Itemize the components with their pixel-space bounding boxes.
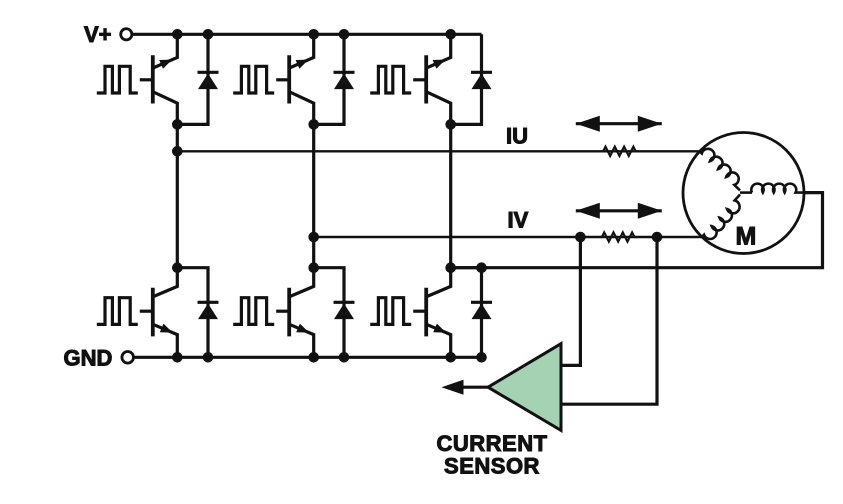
transistor Q2 collector (to phase node) (290, 92, 314, 124)
diode D5 (freewheel, low side) (314, 268, 344, 358)
svg-text:V+: V+ (84, 22, 112, 47)
transistor Q6 base lead (413, 310, 426, 313)
transistor Q4 emitter (arrow to GND) (154, 325, 178, 358)
svg-text:CURRENT: CURRENT (436, 431, 547, 456)
diode D3 (freewheel, high side) (451, 34, 482, 124)
svg-text:M: M (736, 223, 757, 251)
sense resistor R1 (601, 147, 638, 156)
current sensor input wire from IV left node (563, 237, 581, 365)
transistor Q5 emitter (arrow to GND) (290, 325, 314, 358)
phase node W vertical wire (449, 124, 452, 267)
PWM gate drive waveform (Q4) (97, 298, 138, 325)
diode D2 (freewheel, high side) (314, 34, 344, 124)
motor winding U (upper-left) (700, 149, 740, 191)
junction dots across IV sense resistor (575, 232, 586, 243)
transistor Q1 collector (to phase node) (154, 92, 178, 124)
svg-text:SENSOR: SENSOR (444, 454, 540, 479)
PWM gate drive waveform (Q3) (370, 66, 411, 93)
transistor Q1 base lead (140, 78, 153, 81)
transistor Q1 (high side) body bar (151, 55, 155, 103)
GND rail wire (135, 356, 482, 359)
phase node U vertical wire (176, 124, 179, 267)
motor winding V (lower-left) (702, 194, 740, 239)
PWM gate drive waveform (Q6) (370, 298, 411, 325)
V+ rail wire (133, 33, 482, 36)
svg-text:IU: IU (506, 123, 528, 148)
transistor Q2 emitter (arrow to V+) (290, 34, 314, 67)
transistor Q6 collector (to phase node) (427, 268, 451, 297)
transistor Q4 (low side) body bar (151, 288, 155, 337)
transistor Q5 base lead (276, 310, 289, 313)
current sensor output wire with arrow (460, 386, 488, 389)
PWM gate drive waveform (Q2) (233, 66, 274, 93)
transistor Q3 base lead (413, 78, 426, 81)
transistor Q3 collector (to phase node) (427, 92, 451, 124)
motor M circle (683, 133, 804, 254)
transistor Q5 collector (to phase node) (290, 268, 314, 297)
node W wire to motor (451, 193, 823, 268)
transistor Q3 (high side) body bar (424, 55, 428, 103)
node IV wire (314, 236, 702, 238)
transistor Q2 (high side) body bar (287, 55, 291, 103)
PWM gate drive waveform (Q1) (97, 66, 138, 93)
motor winding W (right) (740, 191, 752, 194)
PWM gate drive waveform (Q5) (233, 298, 274, 325)
transistor Q6 emitter (arrow to GND) (427, 325, 451, 358)
transistor Q4 base lead (140, 310, 153, 313)
transistor Q5 (low side) body bar (287, 288, 291, 337)
op-amp U1 current sense amplifier (488, 344, 561, 431)
svg-text:IV: IV (508, 208, 529, 233)
diode D1 (freewheel, high side) (177, 34, 208, 124)
junction dots at bottom-pair tops (172, 262, 183, 273)
current sensor input wire from IV right node (563, 237, 658, 404)
diode D6 (freewheel, low side) (451, 268, 482, 358)
V+ terminal (121, 29, 132, 40)
transistor Q1 emitter (arrow to V+) (154, 34, 178, 67)
diode D4 (freewheel, low side) (177, 268, 208, 358)
node IU wire (177, 150, 699, 152)
sense resistor R2 (600, 232, 637, 241)
transistor Q3 emitter (arrow to V+) (427, 34, 451, 67)
GND terminal (122, 352, 134, 364)
transistor Q6 (low side) body bar (424, 288, 428, 337)
current direction arrow 1 (576, 122, 662, 125)
transistor Q4 collector (to phase node) (154, 268, 178, 297)
junction dots on V+ rail (172, 29, 183, 40)
transistor Q2 base lead (276, 78, 289, 81)
phase node V vertical wire (312, 124, 315, 267)
junction dots at top-pair outputs (172, 119, 183, 130)
current direction arrow 2 (576, 209, 662, 212)
svg-text:GND: GND (64, 346, 113, 371)
junction dots on GND rail (172, 352, 183, 363)
